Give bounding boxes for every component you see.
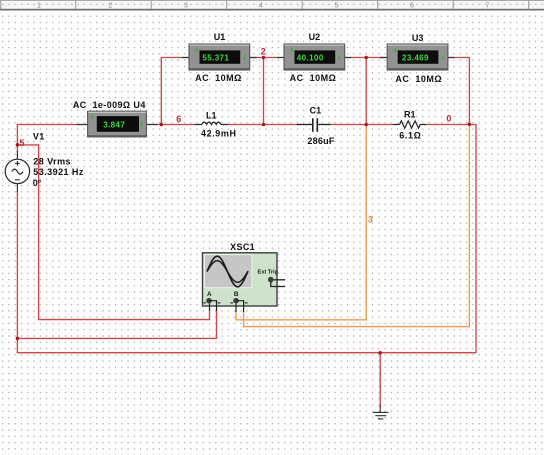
svg-text:3: 3: [184, 2, 188, 9]
svg-text:U3: U3: [412, 33, 424, 43]
svg-text:3: 3: [368, 215, 373, 225]
node 2 junction top: [262, 56, 266, 60]
wire node2 vertical: [263, 58, 265, 125]
node labels: [19, 47, 451, 149]
wire C1 right to R1 left: [331, 124, 393, 126]
scope trace A: [207, 256, 248, 287]
wire: ground net from V1- down and bottom rail (red): [17, 192, 476, 408]
svg-text:28 Vrms: 28 Vrms: [33, 157, 71, 167]
wire A- branch y=338.4: [17, 310, 216, 339]
svg-text:U2: U2: [309, 32, 321, 42]
svg-text:AC 10MΩ: AC 10MΩ: [395, 74, 442, 84]
V1 labels: [33, 132, 84, 189]
svg-text:7: 7: [486, 2, 490, 9]
ext trig terminal: [268, 277, 274, 283]
svg-text:AC 10MΩ: AC 10MΩ: [290, 73, 337, 83]
wire: V1 plus branch to scope A+ (node 5, red): [17, 145, 209, 320]
scope trace B: [207, 261, 248, 283]
wire L1 right to C1 left: [228, 124, 297, 126]
wire: scope B+ to node 3 (orange): [236, 125, 366, 320]
svg-text:V1: V1: [33, 132, 45, 142]
svg-text:40.100: 40.100: [297, 54, 324, 63]
svg-text:B: B: [234, 291, 239, 298]
voltmeter U3: [380, 44, 455, 70]
voltmeter U1: [182, 44, 257, 70]
multimeter U4: [77, 111, 158, 137]
svg-text:2: 2: [109, 2, 113, 9]
inductor L1: [194, 122, 227, 124]
svg-text:U1: U1: [214, 32, 226, 42]
svg-text:286uF: 286uF: [307, 136, 335, 146]
svg-text:23.469: 23.469: [402, 54, 429, 63]
wire node3 vertical: [365, 58, 367, 125]
channel A terminal: [206, 298, 212, 304]
svg-text:AC 10MΩ: AC 10MΩ: [195, 73, 242, 83]
svg-text:3.847: 3.847: [103, 120, 125, 129]
svg-text:R1: R1: [404, 109, 416, 119]
svg-text:55.371: 55.371: [202, 54, 229, 63]
wire U2 right to U3 left (node 3): [351, 57, 383, 59]
svg-text:5: 5: [19, 138, 24, 148]
wire V1+ corner to U4 left stub: [17, 125, 77, 152]
node 2 junction main: [262, 123, 266, 127]
svg-text:Ext Trig: Ext Trig: [258, 270, 279, 276]
wire: top meter rail (red) y=57.5: [161, 58, 469, 125]
ground junction: [378, 351, 382, 355]
wire U4 right to L1 left: [157, 124, 194, 126]
svg-text:2: 2: [261, 47, 266, 57]
svg-text:6.1Ω: 6.1Ω: [399, 131, 421, 141]
svg-text:6: 6: [176, 114, 181, 124]
junction node dots: [16, 56, 472, 355]
node 0 left junction: [16, 337, 20, 341]
voltmeter U2: [277, 44, 351, 70]
node 5 junction: [16, 143, 20, 147]
svg-text:XSC1: XSC1: [230, 242, 255, 252]
svg-text:C1: C1: [310, 106, 322, 116]
svg-text:0°: 0°: [33, 178, 42, 188]
channel B terminal: [233, 298, 239, 304]
svg-text:L1: L1: [206, 111, 217, 121]
svg-text:AC 1e-009Ω U4: AC 1e-009Ω U4: [73, 100, 146, 110]
wire: scope B- to node 0 (orange): [244, 124, 470, 326]
voltage source V1: [5, 151, 29, 192]
wire: main horizontal rail net segments (red) y=124.5: [17, 125, 476, 353]
node 6 junction: [160, 123, 164, 127]
svg-text:42.9mH: 42.9mH: [201, 128, 237, 138]
wire node6 vertical up to U1 left: [161, 58, 182, 125]
node 3 junction top: [364, 56, 368, 60]
wire U3 right corner down to node 0: [454, 58, 469, 125]
ruler bar: [0, 0, 544, 11]
node 3 junction main: [364, 123, 368, 127]
wire ground drop: [379, 353, 381, 407]
svg-text:6: 6: [410, 2, 414, 9]
wire U1 right to U2 left (node 2): [257, 57, 278, 59]
capacitor C1: [297, 118, 331, 132]
wire R1 right to corner, down right side: [426, 125, 476, 353]
resistor R1: [393, 121, 427, 128]
node 0 junction: [468, 123, 472, 127]
svg-text:53.3921 Hz: 53.3921 Hz: [33, 167, 84, 177]
ground: [373, 406, 388, 419]
svg-text:4: 4: [259, 2, 263, 9]
svg-text:5: 5: [335, 2, 339, 9]
oscilloscope XSC1: [203, 253, 286, 312]
svg-text:A: A: [207, 291, 212, 298]
svg-text:0: 0: [446, 114, 451, 124]
svg-text:1: 1: [37, 2, 41, 9]
